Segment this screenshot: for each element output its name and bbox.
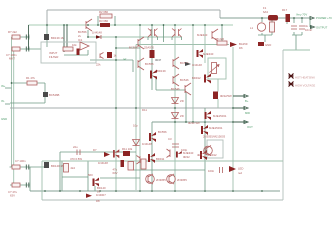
gnd symbol	[258, 42, 271, 47]
svg-text:22k: 22k	[96, 63, 101, 67]
svg-text:IC1: IC1	[78, 38, 83, 42]
resistor R13	[128, 162, 134, 171]
wire feedback vertical	[115, 37, 117, 190]
wire	[136, 44, 229, 46]
capacitor C9	[77, 49, 80, 56]
inductor L1	[250, 23, 266, 31]
trimmer R9	[210, 63, 220, 74]
svg-text:BD139 16: BD139 16	[51, 36, 64, 40]
svg-text:red: red	[238, 171, 242, 175]
wire	[46, 40, 48, 47]
resistor R8	[215, 37, 227, 45]
net arrow B+	[233, 95, 248, 98]
svg-text:R? 2k2: R? 2k2	[8, 30, 17, 34]
svg-text:MKT: MKT	[9, 57, 15, 61]
transistor Q25	[167, 149, 194, 159]
transistor Q8	[173, 57, 189, 69]
svg-text:470 0.5W: 470 0.5W	[70, 157, 82, 161]
wire	[133, 169, 205, 171]
resistor R21	[8, 30, 20, 39]
box output device	[207, 140, 223, 158]
resistor R6	[150, 50, 162, 62]
net arrow MID	[233, 107, 248, 110]
transistor Q16	[201, 125, 223, 135]
bias loop	[208, 58, 226, 79]
wire main positive rail	[29, 24, 234, 26]
net flag IN-	[1, 99, 10, 104]
wire cap drops	[287, 18, 302, 50]
wire	[174, 25, 176, 190]
transistor Q15	[149, 130, 167, 142]
svg-text:MJE15031: MJE15031	[209, 126, 223, 130]
wire	[151, 25, 153, 50]
svg-text:MJE340: MJE340	[197, 33, 208, 37]
diode D10	[133, 108, 153, 146]
wire coil drop	[258, 18, 272, 42]
svg-text:BC546: BC546	[180, 78, 189, 82]
svg-text:BD140 16: BD140 16	[51, 164, 64, 168]
resistor R24	[8, 183, 20, 198]
wire	[232, 47, 234, 190]
wire bottom rail	[30, 190, 280, 192]
resistor R1	[26, 76, 37, 85]
wire	[44, 83, 46, 103]
capacitor C6	[208, 167, 223, 173]
wire	[204, 25, 206, 63]
diode D6	[230, 42, 248, 50]
wire supply rail right	[220, 17, 311, 19]
transistor Q11	[192, 74, 211, 84]
wire out stub	[233, 121, 248, 123]
resistor R4	[63, 43, 77, 51]
svg-text:560: 560	[88, 173, 93, 177]
diode D7	[93, 148, 110, 165]
svg-text:B+: B+	[245, 99, 249, 103]
transistor Q21	[146, 174, 167, 184]
net stubs right	[245, 99, 250, 115]
resistor R2	[99, 10, 112, 18]
resistor R12	[141, 159, 146, 169]
wire long mid vertical	[139, 25, 141, 190]
transistor Q6	[129, 37, 144, 50]
svg-text:BC556: BC556	[145, 62, 154, 66]
wire	[10, 166, 45, 168]
svg-text:BD911: BD911	[156, 157, 165, 161]
transistor Q10	[173, 74, 189, 86]
gray box left	[41, 161, 43, 200]
svg-text:C? 100n: C? 100n	[15, 159, 26, 163]
resistor R10	[213, 92, 232, 100]
wire bottom box verticals	[59, 152, 61, 191]
wire mirror bases	[163, 24, 165, 42]
net flag POWER	[296, 13, 332, 21]
svg-text:0R22: 0R22	[183, 155, 190, 159]
transistor Q17	[113, 149, 119, 158]
svg-text:63V: 63V	[113, 171, 118, 175]
net flag OUTPUT	[310, 26, 328, 30]
svg-text:100n: 100n	[208, 169, 215, 173]
svg-text:0R22/5W: 0R22/5W	[220, 94, 232, 98]
resistor text mirror	[188, 121, 200, 125]
svg-text:1N4148: 1N4148	[192, 63, 202, 67]
wire	[219, 10, 221, 18]
svg-text:BC546: BC546	[171, 87, 180, 91]
wire	[185, 92, 187, 122]
gray box bottom	[42, 199, 283, 201]
wire	[10, 102, 45, 104]
wire	[152, 121, 233, 123]
wire	[29, 167, 31, 191]
wire vas row	[90, 59, 133, 61]
transistor Q24	[205, 111, 227, 120]
resistor R14	[64, 157, 83, 172]
transistor pair Q4a Q4b	[148, 29, 158, 41]
net flag GND	[1, 117, 7, 121]
capacitor C3	[168, 137, 188, 152]
wire	[98, 16, 115, 25]
diode D3	[185, 62, 202, 67]
capacitor C8	[299, 26, 312, 32]
wire	[12, 36, 29, 38]
transistor Q12	[171, 83, 191, 95]
svg-text:L1: L1	[250, 26, 254, 30]
svg-text:0R47: 0R47	[155, 58, 162, 62]
wire	[63, 25, 65, 52]
gray box top partial	[42, 160, 283, 162]
wire	[100, 177, 140, 179]
capacitor C7	[291, 24, 309, 29]
svg-text:LED: LED	[238, 167, 243, 171]
transistor Q13	[197, 29, 218, 41]
wire	[283, 49, 310, 51]
capacitor C11	[73, 145, 80, 155]
svg-text:ZD: ZD	[180, 99, 184, 103]
svg-text:1N4148: 1N4148	[142, 142, 152, 146]
wire	[12, 82, 46, 84]
svg-text:2N3055/MJ15003: 2N3055/MJ15003	[203, 135, 226, 139]
wire	[66, 25, 68, 47]
transistor Q19	[148, 153, 165, 163]
wire	[221, 25, 223, 42]
resistor R23	[12, 159, 26, 169]
wire left vertical bus	[11, 37, 13, 167]
svg-text:R11 10k: R11 10k	[122, 147, 133, 151]
diode D4	[172, 98, 184, 104]
wire	[309, 18, 311, 27]
wire	[87, 30, 89, 37]
opamp box text	[49, 51, 58, 59]
resistor R22	[6, 47, 20, 61]
transistor Q18	[88, 173, 106, 194]
svg-text:OUTPUT: OUTPUT	[316, 26, 328, 30]
transistor Q23	[44, 162, 64, 168]
svg-text:MJE340: MJE340	[203, 52, 214, 56]
pair label	[144, 46, 154, 50]
svg-text:0R22 5W: 0R22 5W	[188, 121, 200, 125]
wire	[28, 25, 30, 49]
transistor Q1	[43, 92, 60, 97]
LED D9	[229, 166, 243, 175]
wire	[88, 36, 182, 38]
resistor R11	[122, 147, 133, 156]
svg-text:IN+: IN+	[1, 84, 6, 88]
capacitor C5	[26, 183, 29, 188]
wire	[151, 122, 153, 190]
svg-text:IN-: IN-	[1, 99, 5, 103]
svg-text:FILTER: FILTER	[49, 55, 58, 59]
wire	[151, 58, 153, 90]
transistor Q2	[44, 34, 64, 40]
warning marks	[289, 74, 316, 88]
transistor Q26	[137, 156, 141, 165]
wire	[46, 25, 48, 34]
transistor Q3 pnp	[78, 19, 92, 38]
svg-text:POWER +70: POWER +70	[316, 16, 332, 20]
svg-text:D8: D8	[96, 199, 100, 203]
svg-text:R1 47k: R1 47k	[26, 76, 35, 80]
transistor Q22	[167, 174, 188, 184]
diode D1	[92, 31, 102, 40]
output transistor box	[197, 135, 226, 158]
svg-text:HIGH VOLTAGE: HIGH VOLTAGE	[295, 84, 315, 88]
wire	[14, 48, 41, 50]
diode D5	[172, 113, 184, 119]
svg-text:OUT: OUT	[247, 125, 253, 129]
transistor Q20	[200, 150, 217, 160]
out arrow	[233, 121, 253, 130]
svg-text:6A3: 6A3	[263, 10, 268, 14]
wire mid horizontal long	[10, 107, 233, 109]
wire	[204, 122, 206, 190]
resistor R3	[99, 19, 110, 27]
svg-text:2SA970: 2SA970	[144, 46, 154, 50]
transistor Q14	[197, 49, 214, 58]
svg-text:D11: D11	[142, 108, 147, 112]
svg-text:BD139: BD139	[157, 69, 166, 73]
diode D8	[86, 193, 106, 203]
capacitor C10	[113, 160, 125, 175]
fuse F1	[263, 6, 278, 21]
capacitor C4	[26, 165, 29, 170]
svg-text:BD912: BD912	[192, 76, 201, 80]
svg-text:22u: 22u	[73, 145, 78, 149]
wire second left vertical	[13, 49, 15, 185]
wire	[64, 50, 88, 55]
wire	[156, 78, 186, 90]
svg-text:MID: MID	[245, 111, 250, 115]
svg-text:10p: 10p	[133, 124, 138, 128]
wire	[116, 47, 140, 49]
svg-text:63V: 63V	[10, 194, 15, 198]
resistor R17	[282, 8, 290, 22]
wire	[204, 108, 206, 122]
svg-text:BC546B: BC546B	[49, 93, 60, 97]
svg-text:D6: D6	[239, 46, 243, 50]
wire feedback row	[60, 151, 136, 153]
transistor Q9	[150, 69, 166, 80]
svg-text:C3: C3	[168, 137, 172, 141]
svg-text:1N4007: 1N4007	[96, 193, 106, 197]
svg-text:2N3055: 2N3055	[156, 178, 166, 182]
trimmer R5	[96, 52, 126, 67]
svg-text:MJE15031: MJE15031	[213, 114, 227, 118]
svg-text:Very 70V: Very 70V	[296, 13, 307, 17]
svg-text:GND: GND	[1, 117, 7, 121]
svg-text:2N3055: 2N3055	[177, 178, 187, 182]
svg-text:R17: R17	[282, 8, 288, 12]
box A input stage	[41, 42, 96, 63]
capacitor C2	[26, 47, 29, 52]
svg-text:10k: 10k	[72, 43, 77, 47]
capacitor C1	[26, 35, 29, 40]
svg-text:BC556: BC556	[129, 46, 138, 50]
gray box right bus	[282, 50, 284, 200]
svg-text:D7: D7	[93, 148, 97, 152]
net flag IN	[1, 84, 12, 88]
svg-text:BC556: BC556	[158, 130, 167, 134]
svg-text:GND: GND	[265, 43, 271, 47]
svg-text:2k2: 2k2	[71, 166, 76, 170]
wire	[10, 184, 30, 186]
svg-text:R3 680: R3 680	[99, 19, 108, 23]
svg-text:R8 220: R8 220	[215, 37, 224, 41]
transistor Q7	[138, 58, 154, 70]
wire	[46, 10, 48, 25]
wire	[132, 60, 134, 72]
wire	[217, 79, 219, 108]
opamp U1	[78, 38, 89, 50]
svg-text:ref: ref	[123, 57, 126, 61]
svg-text:4R7: 4R7	[197, 153, 203, 157]
wire	[192, 25, 194, 122]
svg-text:ZD: ZD	[180, 114, 184, 118]
svg-text:1N4148: 1N4148	[98, 161, 108, 165]
svg-text:R2 680: R2 680	[99, 10, 108, 14]
resistor R16	[270, 22, 275, 32]
transistor pair Q5a Q5b	[172, 29, 182, 41]
svg-text:1N4148: 1N4148	[92, 31, 102, 35]
svg-text:HOT HEATSINK: HOT HEATSINK	[295, 76, 315, 80]
wire top rail upper	[47, 9, 220, 11]
svg-text:100p: 100p	[181, 148, 188, 152]
